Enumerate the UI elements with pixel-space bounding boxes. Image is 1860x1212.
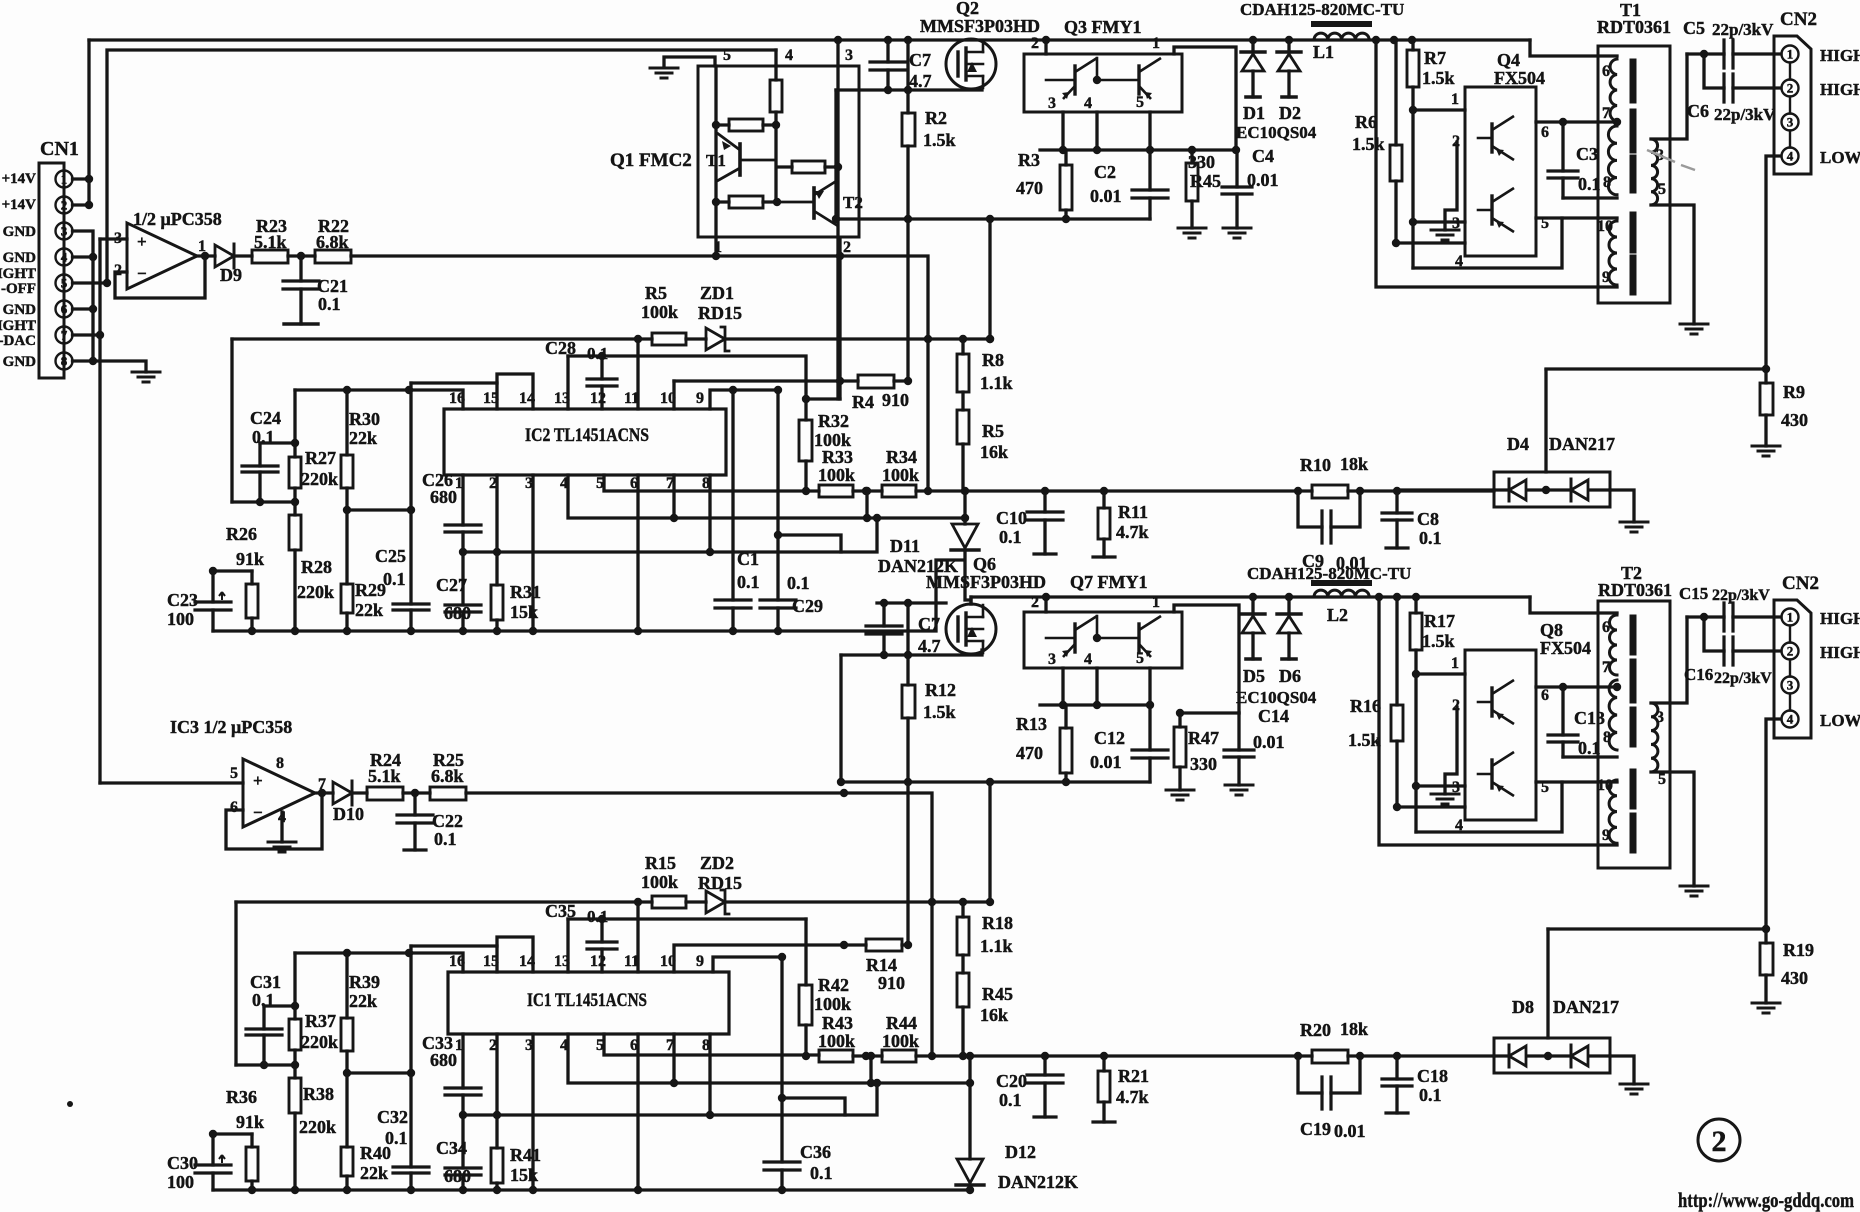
svg-text:R12: R12	[925, 680, 956, 700]
resistor R29	[345, 510, 348, 631]
resistor R9	[1764, 369, 1767, 446]
svg-text:R11: R11	[1118, 502, 1148, 522]
wire C13 bottom to T2 pin8	[1563, 755, 1617, 758]
wire node line y150	[1040, 148, 1236, 151]
connector CN1 pin 3	[56, 223, 73, 240]
ground under C22	[404, 848, 426, 851]
wire C15 line to CN2b pin1	[1687, 615, 1781, 618]
wire Q3 pin1 to C4 riser	[1174, 47, 1236, 150]
svg-text:Q4: Q4	[1497, 50, 1520, 70]
svg-text:91k: 91k	[236, 549, 264, 569]
IC IC1 TL1451ACNS body	[448, 972, 729, 1034]
wire IC2 pin3 to rail	[531, 475, 534, 631]
svg-text:HIGH: HIGH	[1820, 46, 1860, 65]
wire C28 node line y356 extended to R32 riser	[568, 356, 840, 420]
connector CN2 bottom pin 3	[1782, 677, 1799, 694]
svg-text:C5: C5	[1683, 18, 1705, 38]
wire C6 branch	[1704, 54, 1781, 88]
wire IC1 pin10 line y945	[674, 945, 844, 972]
capacitor C32	[409, 1073, 412, 1190]
connector CN2 top pin 2	[1782, 80, 1799, 97]
svg-text:1.5k: 1.5k	[923, 702, 956, 722]
wire C26 to y552 line	[461, 532, 464, 552]
transformer T2 primary winding 6-7	[1610, 615, 1618, 675]
svg-text:9: 9	[1602, 827, 1610, 844]
svg-text:4.7: 4.7	[918, 636, 941, 656]
resistor R2	[906, 40, 909, 381]
wire IC2 pin6 to rail	[636, 475, 639, 631]
svg-text:Q7 FMY1: Q7 FMY1	[1070, 572, 1147, 592]
wire IC2 pin9 line y390	[710, 390, 778, 409]
wire IC1 pin2 to R41	[495, 1034, 498, 1148]
capacitor C23 electrolytic	[211, 571, 214, 631]
capacitor C7 top	[886, 40, 889, 90]
scan scratch near T1 pin3	[1647, 150, 1695, 170]
resistor R45	[1190, 150, 1193, 228]
resistor R17	[1414, 597, 1417, 832]
wire IC1 pin14 riser and line y937	[497, 937, 533, 972]
wire node y502	[232, 500, 295, 503]
ground right of D4	[1620, 522, 1648, 532]
connector CN1 pin 7	[56, 327, 73, 344]
wire Q1 pin5 to ground	[664, 57, 715, 66]
wire R6 bottom to Q4 pin4	[1396, 241, 1465, 244]
resistor R16	[1395, 597, 1398, 807]
wire node y713	[1180, 711, 1239, 714]
capacitor C19	[1298, 1056, 1360, 1093]
resistor R44	[882, 1050, 916, 1062]
svg-text:220k: 220k	[297, 582, 334, 602]
capacitor C31	[262, 1006, 265, 1065]
ground rail y1190 bottom section	[213, 1188, 970, 1191]
svg-text:910: 910	[878, 973, 905, 993]
svg-text:6: 6	[230, 799, 238, 816]
capacitor C7b	[882, 603, 885, 655]
capacitor C36	[764, 1162, 800, 1170]
transformer T1 primary winding 6-7	[1610, 59, 1617, 121]
svg-text:Q1 FMC2: Q1 FMC2	[610, 150, 692, 171]
resistor R8	[961, 339, 964, 410]
svg-text:R5: R5	[982, 421, 1004, 441]
svg-text:R37: R37	[305, 1011, 336, 1031]
svg-text:FX504: FX504	[1494, 68, 1545, 88]
diode D11	[963, 491, 966, 524]
svg-text:22p/3kV: 22p/3kV	[1712, 20, 1774, 39]
capacitor C12	[1148, 705, 1151, 782]
connector CN2 top body	[1774, 36, 1811, 174]
capacitor C25	[409, 510, 412, 631]
capacitor C30 electrolytic	[211, 1134, 214, 1190]
resistor R24	[367, 787, 403, 800]
wire IC1 pin3 to rail	[531, 1034, 534, 1190]
zener diode ZD2	[706, 891, 725, 913]
svg-text:6: 6	[1541, 687, 1549, 704]
Q3 internal transistor b	[1137, 66, 1140, 94]
svg-text:D4: D4	[1507, 434, 1529, 454]
D4 left diode	[1494, 488, 1509, 491]
svg-text:2: 2	[1787, 644, 1794, 659]
svg-text:1: 1	[1451, 655, 1459, 672]
svg-text:0.1: 0.1	[383, 569, 406, 589]
Q3 block body	[1024, 54, 1182, 112]
svg-text:R15: R15	[645, 853, 676, 873]
wire Q1 pin3 from bus / internal column to pin2 and drive	[836, 40, 839, 399]
wire Q4 pin5 stub	[1536, 216, 1562, 219]
capacitor C35	[600, 919, 603, 972]
capacitor C15	[1724, 603, 1733, 631]
svg-text:CN1: CN1	[40, 138, 79, 160]
wire pin10 line y381	[674, 379, 840, 382]
svg-text:680: 680	[444, 1166, 471, 1186]
resistor R34	[882, 485, 916, 497]
wire C24 top node y443	[260, 441, 295, 444]
svg-text:5: 5	[1658, 181, 1666, 198]
wire C3 bottom to T1 pin8	[1563, 196, 1617, 199]
connector CN2 top pin 1	[1782, 46, 1799, 63]
svg-text:7: 7	[61, 328, 68, 343]
wire y552 line	[463, 518, 877, 552]
wire C35 node line y919 extended to R42 riser	[568, 917, 806, 920]
wire Q4 pin1 line	[1413, 108, 1465, 111]
wire jog x841 between C29 riser and y552	[778, 535, 841, 552]
svg-text:T2: T2	[843, 193, 863, 212]
svg-text:0.1: 0.1	[385, 1128, 408, 1148]
svg-text:100: 100	[167, 1172, 194, 1192]
wire riser x411 to pin15 line	[409, 383, 412, 510]
inductor L2 core bar	[1314, 580, 1369, 586]
svg-text:ZD2: ZD2	[700, 853, 734, 873]
svg-text:CDAH125-820MC-TU: CDAH125-820MC-TU	[1240, 0, 1404, 19]
ground right of D8	[1620, 1084, 1648, 1094]
svg-text:CN2: CN2	[1782, 573, 1819, 594]
wire x836 vertical to node y219	[834, 90, 837, 219]
wire riser x782 to C36	[780, 957, 783, 1162]
zener diode ZD1	[706, 328, 725, 350]
resistor R33	[819, 485, 853, 497]
ground under T2 pin5	[1680, 886, 1708, 896]
svg-text:C8: C8	[1417, 509, 1439, 529]
transformer T2 secondary winding	[1651, 703, 1658, 772]
svg-text:R2: R2	[925, 108, 947, 128]
svg-text:C35: C35	[545, 901, 576, 921]
svg-text:3: 3	[1787, 115, 1794, 130]
wire bus2 into Q1 pin4	[774, 50, 777, 66]
svg-text:470: 470	[1016, 178, 1043, 198]
svg-text:LIGHT: LIGHT	[0, 318, 36, 334]
resistor R32	[804, 461, 807, 491]
svg-text:470: 470	[1016, 743, 1043, 763]
wire node y1065	[236, 1063, 295, 1066]
svg-text:R38: R38	[303, 1084, 334, 1104]
transformer T1 secondary winding	[1651, 139, 1658, 205]
wire C31 top node y1006	[264, 1004, 295, 1007]
svg-text:C36: C36	[800, 1142, 831, 1162]
svg-text:5: 5	[61, 276, 68, 291]
wire riser x411 to pin15 line	[409, 946, 412, 1073]
Q8 internal transistor upper	[1490, 688, 1493, 716]
svg-text:R6: R6	[1355, 112, 1377, 132]
wire riser x990	[988, 219, 991, 339]
svg-text:3: 3	[1048, 95, 1056, 112]
wire IC1 pin1 to C33	[461, 1034, 464, 1088]
svg-text:8: 8	[276, 755, 284, 772]
Q8 internal transistor lower	[1490, 760, 1493, 788]
svg-text:22k: 22k	[349, 428, 377, 448]
svg-text:C12: C12	[1094, 728, 1125, 748]
svg-text:5: 5	[596, 1037, 604, 1054]
wire Q8 pin1 line	[1416, 672, 1465, 675]
svg-text:1.1k: 1.1k	[980, 936, 1013, 956]
svg-text:3: 3	[61, 224, 68, 239]
svg-text:RDT0361: RDT0361	[1598, 580, 1672, 600]
svg-text:680: 680	[430, 1050, 457, 1070]
svg-text:100k: 100k	[641, 872, 678, 892]
svg-text:+: +	[253, 771, 263, 790]
connector CN2 bottom pin 2	[1782, 643, 1799, 660]
capacitor C27	[461, 552, 464, 631]
wire CN2 top pin4 to R9 node	[1546, 156, 1781, 369]
svg-text:7: 7	[1602, 659, 1610, 676]
svg-text:GND: GND	[3, 302, 37, 318]
svg-text:D10: D10	[333, 804, 364, 824]
Q1 internal resistor r3	[792, 161, 825, 173]
svg-text:C19: C19	[1300, 1119, 1331, 1139]
svg-text:0.1: 0.1	[1419, 528, 1442, 548]
wire IC1 pin6 to rail	[636, 1034, 639, 1190]
svg-text:Q8: Q8	[1540, 620, 1563, 640]
svg-text:16k: 16k	[980, 1005, 1008, 1025]
svg-text:C31: C31	[250, 972, 281, 992]
svg-text:C10: C10	[996, 508, 1027, 528]
D8 left diode	[1494, 1054, 1509, 1057]
wire IC1 pin13 riser	[566, 919, 569, 972]
svg-text:R39: R39	[349, 972, 380, 992]
svg-text:DAN212K: DAN212K	[998, 1172, 1078, 1192]
wire T1 pin5 to ground	[1651, 205, 1694, 324]
wire Q6 gate line y603	[877, 601, 946, 604]
svg-text:C20: C20	[996, 1071, 1027, 1091]
capacitor C26	[445, 525, 481, 532]
ground under R9	[1752, 446, 1780, 456]
svg-text:9: 9	[696, 390, 704, 407]
wire drive line from R22 to right	[351, 256, 928, 492]
wire Q8 pin3 line	[1416, 784, 1465, 787]
Q4 internal transistor lower	[1490, 196, 1493, 224]
svg-text:5: 5	[230, 765, 238, 782]
svg-text:4: 4	[1084, 95, 1092, 112]
svg-text:D6: D6	[1279, 666, 1301, 686]
svg-text:C14: C14	[1258, 706, 1289, 726]
capacitor C10	[1043, 491, 1046, 554]
wire D8 riser	[1546, 929, 1549, 1038]
svg-text:RDT0361: RDT0361	[1597, 17, 1671, 37]
svg-text:18k: 18k	[1340, 1019, 1368, 1039]
svg-text:0.01: 0.01	[1090, 752, 1122, 772]
svg-text:1.5k: 1.5k	[923, 130, 956, 150]
svg-text:DAN217: DAN217	[1553, 997, 1619, 1017]
Q4 internal transistor upper	[1490, 124, 1493, 152]
capacitor C1	[715, 600, 751, 608]
wire T1 pin7 junction	[1613, 118, 1621, 126]
svg-text:L2: L2	[1327, 605, 1348, 625]
capacitor C13	[1561, 687, 1564, 757]
wire LIGHT-OFF pin5 to bus2	[73, 50, 777, 283]
wire bus corner to T2 pin6	[1530, 597, 1617, 613]
svg-text:1: 1	[1152, 35, 1160, 52]
resistor R31	[491, 585, 503, 620]
svg-text:DAN217: DAN217	[1549, 434, 1615, 454]
op-amp U1 triangle	[127, 223, 197, 289]
svg-text:1: 1	[61, 172, 68, 187]
wire x1376 down to T1 pin9	[1376, 40, 1617, 287]
svg-text:8: 8	[1603, 729, 1611, 746]
svg-text:4: 4	[1455, 253, 1463, 270]
connector CN2 top pin 3	[1782, 114, 1799, 131]
resistor R30	[345, 390, 348, 510]
svg-text:6: 6	[1602, 63, 1610, 80]
wire +14V bus from CN1 pins 1,2 to top rail	[73, 40, 90, 205]
svg-text:D5: D5	[1243, 666, 1265, 686]
resistor R22	[315, 250, 351, 263]
wire Q4 pin3 line	[1413, 220, 1465, 223]
svg-text:+14V: +14V	[2, 197, 37, 213]
svg-text:R41: R41	[510, 1145, 541, 1165]
Q4 block body	[1465, 87, 1536, 256]
svg-text:0.1: 0.1	[587, 907, 608, 926]
Q8 block body	[1465, 650, 1536, 820]
svg-text:100k: 100k	[882, 1031, 919, 1051]
diode D5	[1251, 597, 1254, 659]
wire C16 branch	[1704, 617, 1781, 651]
Q1 internal resistor r1	[729, 119, 763, 131]
svg-text:7: 7	[1602, 105, 1610, 122]
Q7 internal transistor b	[1137, 624, 1140, 652]
svg-text:R21: R21	[1118, 1066, 1149, 1086]
svg-text:−: −	[253, 803, 263, 822]
svg-text:EC10QS04: EC10QS04	[1236, 123, 1317, 142]
svg-text:5: 5	[1541, 779, 1549, 796]
wire IC2 pin13 riser	[566, 356, 569, 409]
svg-text:22k: 22k	[349, 991, 377, 1011]
svg-text:MMSF3P03HD: MMSF3P03HD	[926, 572, 1046, 592]
svg-text:R14: R14	[866, 955, 897, 975]
wire CN2 bottom pin4 to R19 node	[1548, 719, 1781, 929]
svg-text:C3: C3	[1576, 144, 1598, 164]
wire node y510	[347, 508, 411, 511]
wire Q7 pins 3,4,5 stubs to node y705	[1063, 668, 1150, 705]
wire D4 left lead	[1397, 488, 1494, 491]
wire bottom bus y597	[971, 595, 1530, 598]
svg-text:4: 4	[61, 250, 68, 265]
svg-text:R47: R47	[1188, 728, 1219, 748]
Q1 block body	[698, 66, 859, 237]
wire GND chain CN1 pins 3,4,6,8	[73, 231, 147, 372]
connector CN1 pin 1	[56, 171, 73, 188]
ground at Q1 pin5	[650, 68, 678, 78]
IC IC2 TL1451ACNS body	[444, 409, 726, 475]
ground under IC3	[280, 812, 283, 842]
svg-text:MMSF3P03HD: MMSF3P03HD	[920, 16, 1040, 36]
svg-text:R10: R10	[1300, 455, 1331, 475]
wire drive line bottom channel	[466, 793, 932, 1056]
page number circled 2	[1698, 1119, 1740, 1161]
wire IC2 pin4 line y518 to D11	[568, 475, 965, 518]
svg-text:0.1: 0.1	[810, 1163, 833, 1183]
wire IC2 pin2 to R31	[495, 475, 498, 585]
wire CN2 top pin links	[1789, 63, 1791, 148]
svg-text:Q3 FMY1: Q3 FMY1	[1064, 17, 1141, 37]
wire IC2 pin10 line y381	[672, 381, 675, 409]
resistor R14	[844, 943, 908, 946]
svg-text:6: 6	[1541, 124, 1549, 141]
diode D12	[968, 1056, 971, 1159]
svg-text:2: 2	[1712, 1125, 1727, 1158]
svg-text:LIGHT: LIGHT	[0, 266, 36, 282]
svg-text:100k: 100k	[814, 430, 851, 450]
svg-text:100k: 100k	[882, 465, 919, 485]
svg-text:LOW: LOW	[1820, 711, 1860, 730]
ground under R47	[1166, 790, 1194, 800]
resistor R28	[293, 502, 296, 631]
resistor R21	[1102, 1056, 1105, 1122]
svg-text:16k: 16k	[980, 442, 1008, 462]
capacitor C22	[413, 793, 416, 850]
svg-text:R33: R33	[822, 447, 853, 467]
wire T1 pin3 riser to C5 node	[1651, 54, 1687, 139]
capacitor C21	[299, 256, 302, 324]
transformer T2 body	[1598, 601, 1670, 868]
connector CN1 pin 2	[56, 197, 73, 214]
svg-text:D11: D11	[890, 536, 920, 556]
svg-text:IC2 TL1451ACNS: IC2 TL1451ACNS	[525, 425, 649, 446]
capacitor C14	[1237, 713, 1240, 785]
wire x841 vertical to node y782	[839, 655, 842, 782]
wire T2 pin3 riser to C15 node	[1651, 617, 1687, 703]
svg-text:2: 2	[1031, 35, 1039, 52]
capacitor C34	[461, 1115, 464, 1190]
capacitor C33	[445, 1088, 481, 1095]
resistor R13	[1064, 705, 1067, 782]
svg-text:22k: 22k	[360, 1163, 388, 1183]
wire top supply bus y40	[89, 38, 1530, 41]
svg-text:EC10QS04: EC10QS04	[1236, 688, 1317, 707]
resistor R40	[345, 1073, 348, 1190]
svg-text:5: 5	[723, 47, 731, 64]
svg-text:2: 2	[61, 198, 68, 213]
wire riser x778 to C29	[776, 390, 779, 600]
svg-text:22k: 22k	[355, 600, 383, 620]
wire D4 riser	[1544, 370, 1547, 472]
wire node line y705	[1040, 703, 1150, 706]
svg-text:D1: D1	[1243, 103, 1265, 123]
svg-text:R7: R7	[1424, 48, 1446, 68]
capacitor C8	[1395, 491, 1398, 548]
diode D1	[1251, 40, 1254, 97]
svg-text:R17: R17	[1424, 611, 1455, 631]
svg-text:+: +	[137, 232, 147, 251]
wire Q3 pins 3,4,5 stubs to node y150	[1063, 112, 1150, 150]
Q4 internal pin2 chain and ground	[1445, 142, 1457, 230]
dual diode D4 body	[1494, 472, 1610, 507]
svg-text:4.7: 4.7	[909, 71, 932, 91]
ground rail y631 top section	[213, 560, 962, 631]
svg-text:C27: C27	[436, 575, 467, 595]
svg-text:91k: 91k	[236, 1112, 264, 1132]
svg-text:RD15: RD15	[698, 303, 742, 323]
svg-text:18k: 18k	[1340, 454, 1368, 474]
svg-text:330: 330	[1190, 754, 1217, 774]
svg-text:-OFF: -OFF	[1, 281, 36, 297]
